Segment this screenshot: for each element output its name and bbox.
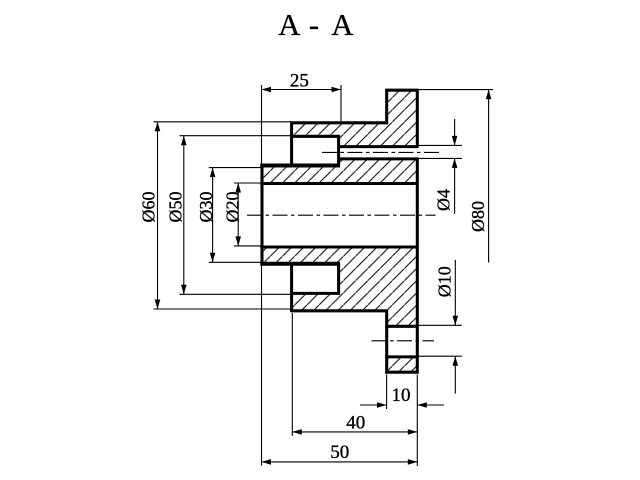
ext dia30 top: [209, 167, 261, 169]
ext dia4 top: [419, 144, 462, 146]
svg-text:Ø50: Ø50: [166, 192, 186, 223]
svg-text:Ø80: Ø80: [468, 201, 488, 232]
flange left face upper: [385, 89, 388, 124]
arrow 10 right: [417, 402, 427, 408]
dim line dia80: [488, 90, 490, 263]
svg-text:Ø4: Ø4: [434, 189, 454, 211]
bore top edge: [260, 182, 418, 185]
boss bottom edge: [290, 309, 388, 312]
hatch region D (below channel to bore): [339, 159, 418, 184]
thin lines: extensions and dimension lines: [154, 85, 493, 466]
arrow dia80 up: [486, 90, 492, 100]
boss top edge: [290, 121, 388, 124]
dim line 10 left part: [360, 404, 387, 406]
flange top edge: [385, 89, 418, 92]
svg-text:10: 10: [392, 385, 411, 406]
ext dia80: [419, 89, 493, 91]
ext dia50 top: [180, 135, 292, 137]
dim line dia10 lower: [454, 356, 456, 394]
part outline: thick lines: [260, 89, 418, 374]
hatch region B1 (boss above groove): [292, 123, 339, 137]
arrow 50 right: [408, 459, 418, 465]
hatch region E (below bore left): [262, 247, 339, 264]
arrowheads: [155, 87, 492, 465]
arrow dia20 down: [235, 236, 241, 246]
arrow dia60 up: [155, 122, 161, 132]
svg-text:A: A: [331, 8, 353, 42]
ext dia60 bottom: [154, 308, 291, 310]
groove right edge upper: [337, 135, 340, 167]
svg-text:A: A: [278, 8, 300, 42]
dim line dia4 lower: [454, 158, 456, 213]
dim line dia4 upper: [454, 119, 456, 145]
boss left face upper: [290, 122, 293, 167]
svg-text:Ø60: Ø60: [139, 192, 159, 223]
bore bottom edge: [260, 245, 418, 248]
svg-text:25: 25: [290, 71, 309, 92]
arrow dia30 up: [210, 168, 216, 178]
ext right face bottom: [416, 375, 418, 467]
dim line 10 right part: [417, 404, 444, 406]
oil hole centerline: [322, 151, 441, 153]
oil channel bottom edge: [338, 157, 419, 160]
hatch region H (flange below bore): [387, 247, 418, 326]
ext dia4 bottom: [419, 157, 462, 159]
arrow dia50 down: [181, 285, 187, 295]
groove bottom / small cylinder top edge: [260, 164, 340, 168]
hatch region B2 (above oil channel): [339, 123, 418, 147]
right face lower segment: [416, 159, 419, 374]
dimension texts: [139, 71, 489, 464]
dim line dia20: [237, 183, 239, 246]
ext 25 left / 50 left: [261, 85, 263, 165]
groove top edge: [290, 135, 340, 138]
bolt hole bottom edge: [385, 355, 418, 358]
dim line 25: [262, 89, 342, 91]
dim line dia50: [183, 136, 185, 295]
ext dia50 bottom: [180, 293, 292, 295]
hatch region I (flange below bolt hole): [387, 357, 418, 372]
arrow 10 left: [377, 402, 387, 408]
arrow dia20 up: [235, 183, 241, 193]
flange bottom edge: [385, 371, 418, 374]
main axis centerline: [247, 214, 436, 216]
ext dia30 bottom: [209, 261, 261, 263]
flange left face lower: [385, 310, 388, 374]
arrow dia10 upper down: [453, 316, 459, 326]
hatch region A (flange top): [387, 90, 418, 123]
ext dia10 top: [419, 324, 462, 326]
dim line dia60: [157, 122, 159, 309]
arrow dia10 lower up: [453, 356, 459, 366]
arrow dia30 down: [210, 253, 216, 262]
svg-text:50: 50: [330, 442, 349, 463]
svg-text:Ø10: Ø10: [435, 266, 455, 297]
centerlines dash-dot: [247, 152, 441, 340]
bolt hole top edge: [385, 325, 418, 328]
hatch region G (below lower groove): [292, 293, 339, 310]
arrow dia60 down: [155, 300, 161, 310]
svg-text:-: -: [309, 8, 319, 42]
dim line 50: [262, 461, 418, 463]
oil channel top edge: [338, 145, 419, 148]
ext dia20 top: [234, 182, 261, 184]
groove right edge lower: [337, 263, 340, 295]
hatch region F (below bore mid): [339, 247, 387, 311]
arrow 40 right: [408, 429, 418, 435]
dim line 40: [292, 431, 417, 433]
ext dia20 bottom: [234, 245, 261, 247]
ext 10 left: [386, 375, 388, 410]
small cylinder bottom / lower groove top edge: [260, 262, 340, 266]
arrow 25 right: [332, 87, 342, 93]
ext 40 left: [291, 313, 293, 436]
arrow dia50 up: [181, 136, 187, 146]
dim line dia10 upper: [454, 260, 456, 326]
arrow dia4 lower up: [452, 158, 458, 168]
ext dia10 bottom: [419, 355, 462, 357]
arrow 40 left: [292, 429, 302, 435]
bolt hole centerline: [372, 340, 435, 342]
svg-text:40: 40: [346, 413, 365, 434]
ext 25 right: [340, 85, 342, 121]
boss left face lower: [290, 263, 293, 313]
hatch region C (below groove to bore): [262, 166, 339, 184]
right face upper segment: [416, 89, 419, 147]
svg-text:Ø20: Ø20: [223, 192, 243, 223]
lower groove bottom edge: [290, 292, 340, 295]
arrow dia4 upper down: [452, 136, 458, 146]
arrow 50 left: [262, 459, 272, 465]
dim line dia30: [212, 168, 214, 263]
left face (small cylinder): [260, 164, 263, 265]
ext dia60 top: [154, 121, 291, 123]
svg-text:Ø30: Ø30: [196, 192, 216, 223]
arrow 25 left: [262, 87, 272, 93]
